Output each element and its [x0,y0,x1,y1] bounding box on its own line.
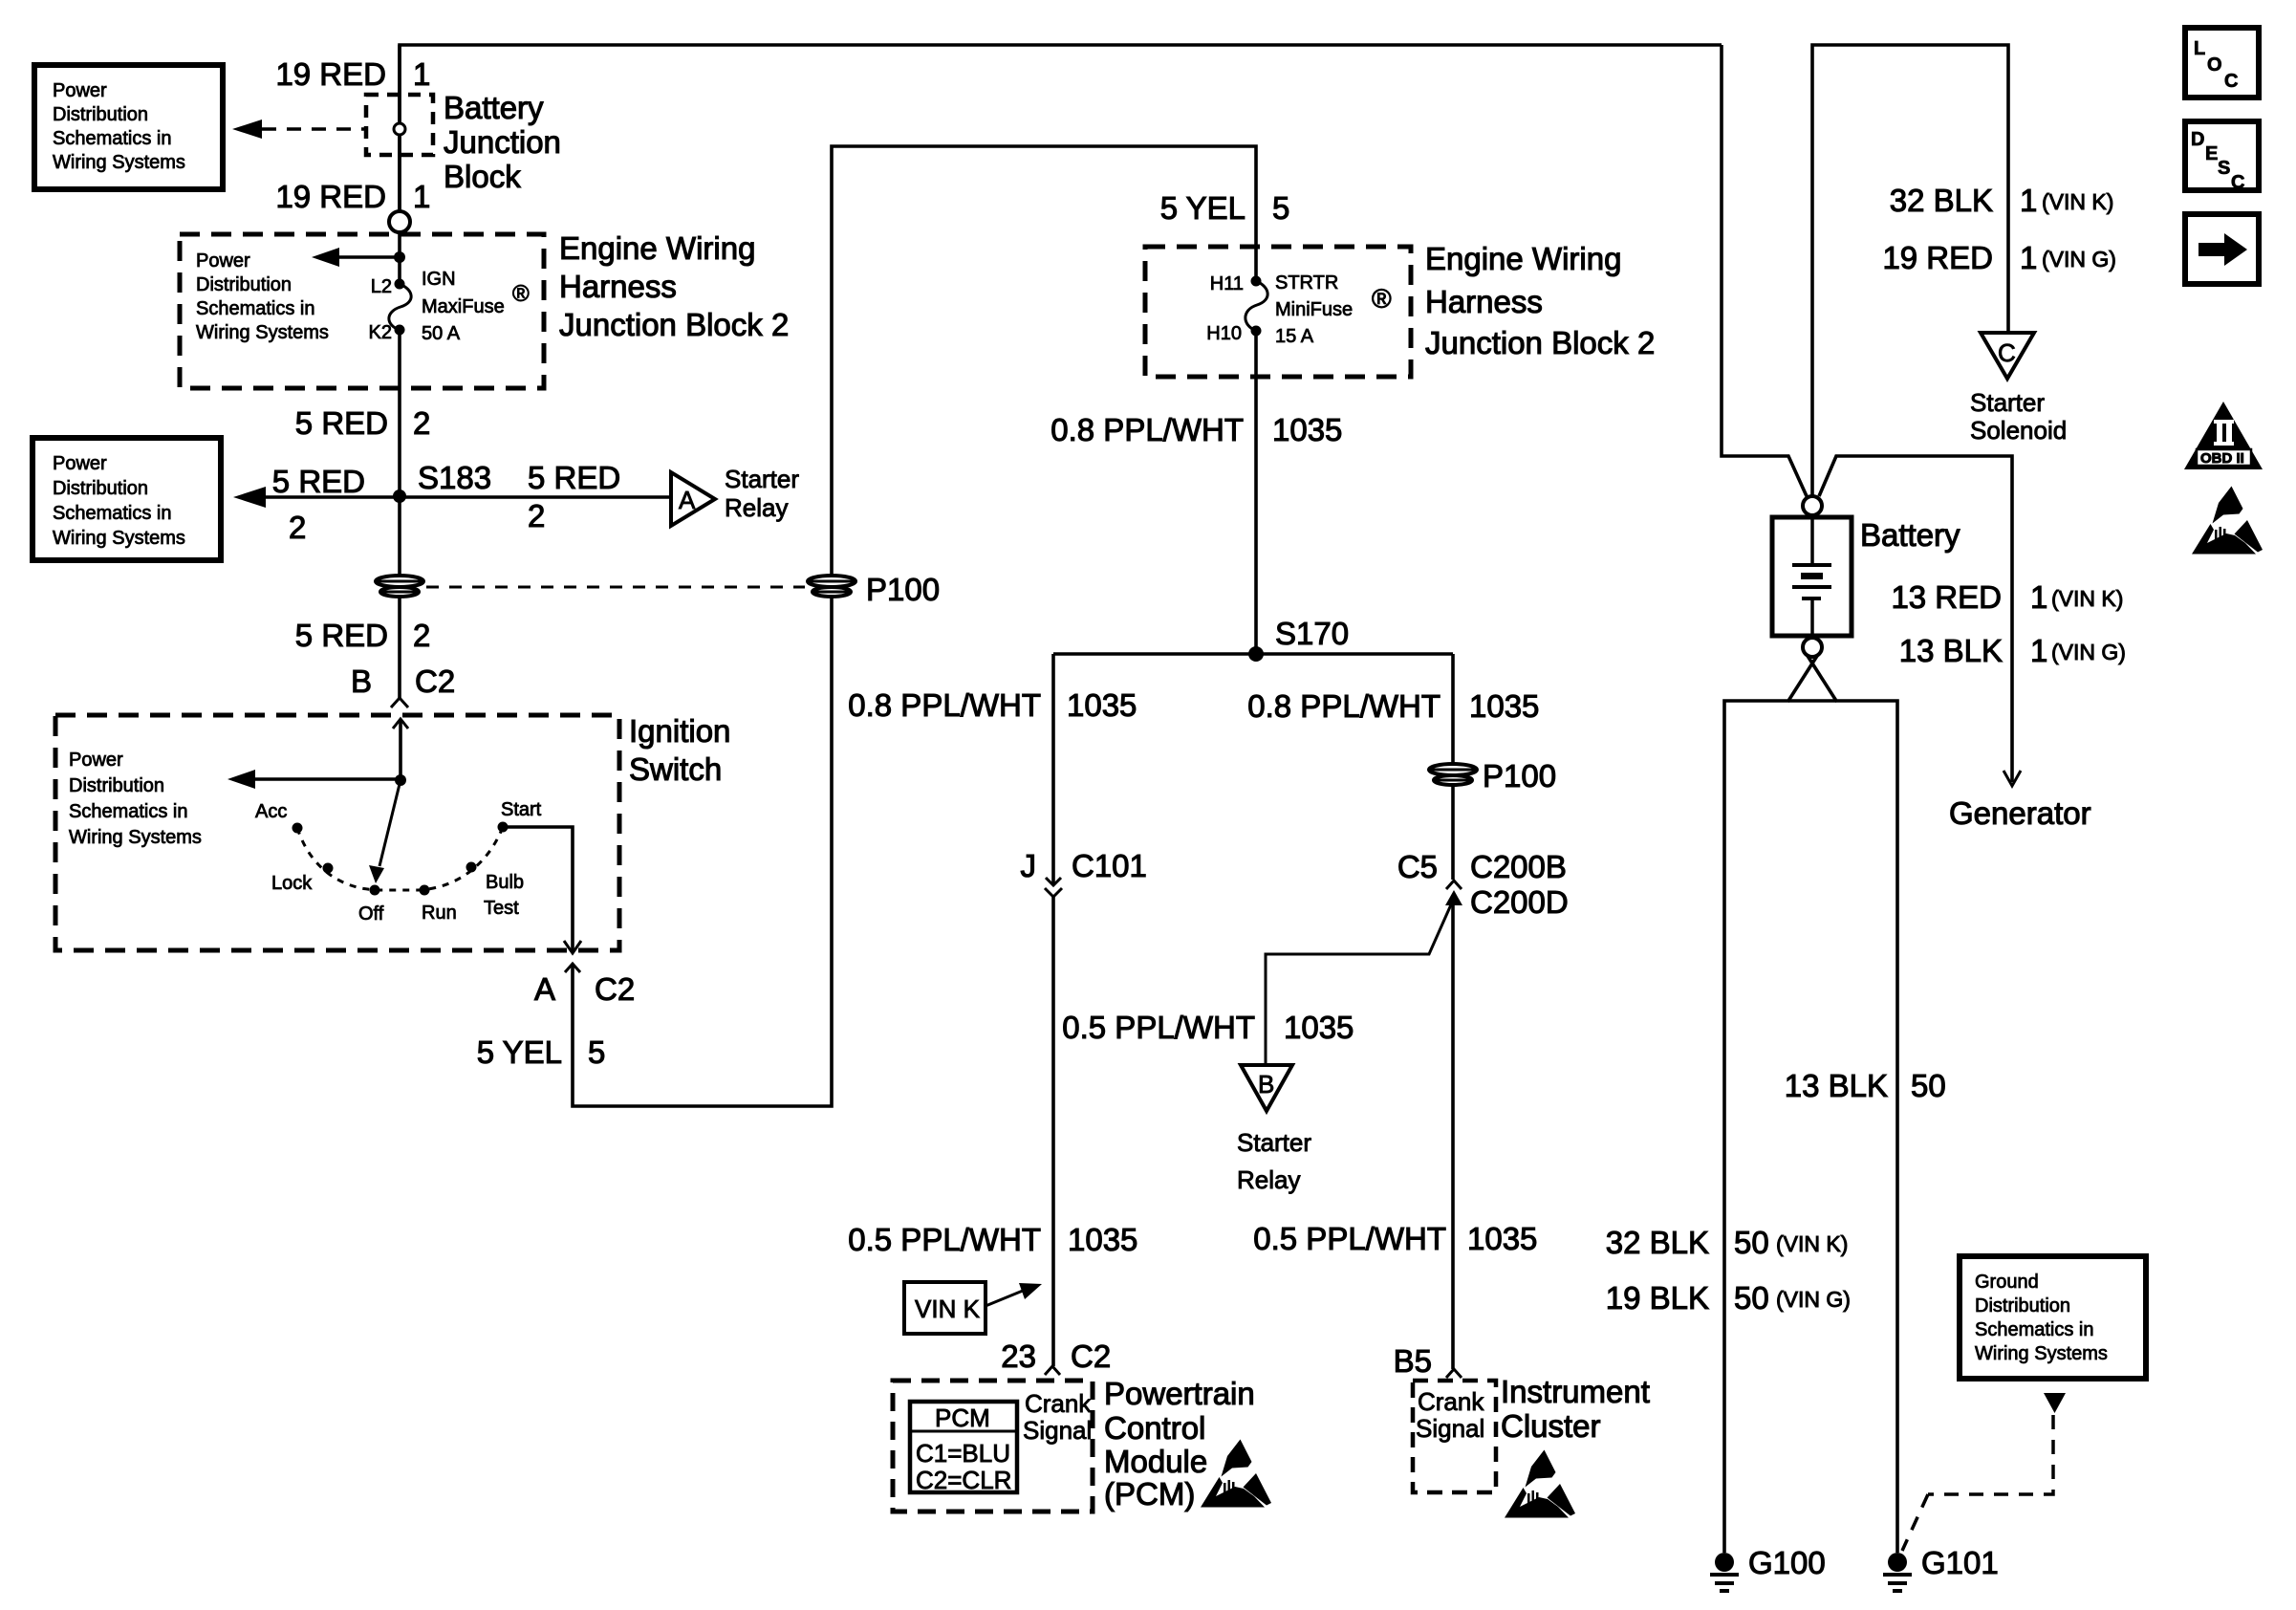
icon: LOC box [2185,28,2259,98]
wire: S183 down to grommet P100 [398,496,401,576]
svg-text:(PCM): (PCM) [1104,1476,1195,1512]
svg-text:Schematics in: Schematics in [53,128,172,149]
ground G101 [1888,1553,1907,1572]
wire: from C100 down through maxifuse to S183 [398,232,401,284]
svg-text:5 RED: 5 RED [295,405,388,441]
svg-text:2: 2 [413,618,430,653]
svg-text:Ground: Ground [1975,1272,2039,1293]
svg-text:C: C [2231,172,2244,193]
svg-text:Distribution: Distribution [69,775,164,796]
switch contact: Start [498,822,509,833]
svg-text:Off: Off [358,903,384,925]
svg-text:1: 1 [2030,633,2047,668]
svg-text:IGN: IGN [422,269,456,290]
dashed box: Ignition Switch [55,715,619,950]
svg-text:0.8 PPL/WHT: 0.8 PPL/WHT [1051,412,1244,447]
triangle C: starter solenoid [1981,333,2034,379]
svg-text:Distribution: Distribution [53,104,148,125]
box: Power Distribution Schematics in Wiring Systems (mid left) [32,438,221,560]
svg-text:C: C [2224,71,2238,92]
svg-text:Junction Block 2: Junction Block 2 [1425,325,1655,360]
switch contact: Run [420,885,430,896]
ignition switch wiper arrow to Off [379,780,401,866]
svg-text:2: 2 [413,405,430,441]
wire: diagonal branch from C200D to starter relay loop [1266,903,1452,1065]
battery junction block dashed box [366,95,433,155]
svg-text:Switch: Switch [629,751,722,787]
svg-text:Power: Power [69,750,123,771]
svg-text:1: 1 [2020,240,2037,275]
wire: right branch down to P100 grommet [1451,654,1455,765]
svg-text:C2: C2 [415,664,455,699]
svg-text:Crank: Crank [1025,1389,1092,1418]
svg-text:C2: C2 [1071,1338,1111,1374]
svg-text:0.5 PPL/WHT: 0.5 PPL/WHT [848,1222,1041,1257]
wire: S183 left arrow to power distribution [264,495,400,499]
svg-text:1035: 1035 [1067,687,1137,723]
triangle B: starter relay [1241,1065,1292,1111]
svg-text:Relay: Relay [1237,1165,1300,1194]
icon: DESC box [2185,121,2259,190]
svg-text:1035: 1035 [1272,412,1342,447]
svg-text:Engine Wiring: Engine Wiring [1425,241,1621,276]
svg-text:Wiring Systems: Wiring Systems [1975,1343,2108,1364]
svg-text:C101: C101 [1072,848,1147,883]
svg-text:C1=BLU: C1=BLU [916,1439,1010,1468]
svg-text:Distribution: Distribution [196,274,292,295]
svg-text:19 RED: 19 RED [275,179,386,214]
dashed box: Engine Wiring Harness Junction Block 2 (middle) [1145,247,1411,377]
battery cell plates [1810,517,1814,563]
svg-text:MiniFuse: MiniFuse [1275,299,1353,320]
svg-text:Wiring Systems: Wiring Systems [53,528,185,549]
wire: C200 down to instrument cluster B5 [1451,905,1455,1369]
junction dot and arrow inside junction block 2 [394,251,405,263]
svg-text:Starter: Starter [1237,1128,1311,1157]
svg-text:MaxiFuse: MaxiFuse [422,296,505,317]
svg-text:K2: K2 [369,322,392,343]
svg-text:Wiring Systems: Wiring Systems [53,152,185,173]
connector A C2 below ignition switch [565,964,580,972]
dashed wire between P100 grommets [426,586,805,589]
svg-text:Schematics in: Schematics in [53,503,172,524]
wire: battery negative V to ground bus [1724,656,1817,1553]
svg-text:1: 1 [2020,183,2037,218]
svg-text:Engine Wiring: Engine Wiring [559,230,755,266]
connector: small circle in battery junction block [394,123,405,135]
svg-text:Run: Run [422,903,457,924]
svg-text:C5: C5 [1397,849,1438,884]
svg-text:1035: 1035 [1467,1221,1537,1256]
svg-text:13 RED: 13 RED [1891,579,2002,615]
svg-text:15 A: 15 A [1275,326,1314,347]
svg-text:D: D [2191,129,2204,150]
ESD symbol (right margin) [2192,487,2263,555]
svg-text:Module: Module [1104,1444,1207,1479]
svg-text:C2=CLR: C2=CLR [916,1466,1011,1494]
wire: arrow to power distribution schematics (ignition) [252,777,401,781]
svg-text:Instrument: Instrument [1501,1374,1650,1409]
battery positive terminal [1803,496,1822,515]
battery negative terminal [1803,638,1822,657]
svg-text:Distribution: Distribution [53,478,148,499]
svg-text:(VIN G): (VIN G) [1776,1287,1851,1312]
dashed wire from ground distribution to G101 [1928,1415,2053,1494]
svg-text:2: 2 [289,510,306,545]
svg-text:O: O [2207,54,2222,76]
wire: Start contact to connector A C2 [503,827,573,952]
svg-text:Battery: Battery [1860,517,1960,553]
dashed box: Engine Wiring Harness Junction Block 2 (left) [180,234,544,388]
svg-text:Battery: Battery [444,90,544,125]
svg-text:C200B: C200B [1470,849,1567,884]
wire: top bus drop to battery (left path) [1722,45,1807,496]
svg-text:Junction: Junction [444,124,561,160]
svg-text:5 YEL: 5 YEL [477,1034,562,1070]
wire: left branch down to C101 [1051,654,1055,885]
wire: 19 RED segment through battery junction block (x=418) [398,45,401,211]
arrow from ground distribution box [2044,1393,2066,1413]
svg-text:0.8 PPL/WHT: 0.8 PPL/WHT [848,687,1041,723]
svg-text:Bulb: Bulb [486,872,524,893]
switch contact: Off [370,885,380,896]
ESD symbol (instrument cluster) [1505,1450,1575,1518]
svg-text:Signal: Signal [1023,1416,1092,1445]
svg-text:0.5 PPL/WHT: 0.5 PPL/WHT [1062,1010,1255,1045]
box: Power Distribution Schematics in Wiring Systems (top left) [34,65,223,189]
svg-text:Harness: Harness [559,269,677,304]
switch contact: Bulb Test [466,862,477,873]
svg-text:L2: L2 [371,276,392,297]
svg-text:J: J [1021,848,1037,883]
svg-text:0.5 PPL/WHT: 0.5 PPL/WHT [1253,1221,1446,1256]
svg-text:Generator: Generator [1949,795,2091,831]
svg-text:B: B [351,664,372,699]
svg-text:1: 1 [413,179,430,214]
ground G100 [1715,1553,1734,1572]
grommet P100 (right) [1429,764,1477,785]
svg-text:19 RED: 19 RED [1882,240,1993,275]
svg-text:PCM: PCM [935,1403,990,1432]
svg-text:C200D: C200D [1470,884,1569,920]
svg-text:32 BLK: 32 BLK [1606,1225,1709,1260]
svg-text:5: 5 [1272,190,1289,226]
svg-text:5 YEL: 5 YEL [1160,190,1245,226]
svg-text:0.8 PPL/WHT: 0.8 PPL/WHT [1247,688,1440,724]
svg-text:Ignition: Ignition [629,713,730,749]
splice S183 [393,490,406,503]
svg-text:A: A [534,971,555,1007]
svg-text:OBD II: OBD II [2200,450,2244,467]
wire: S183 right to starter relay A [400,495,671,499]
svg-text:Control: Control [1104,1410,1205,1446]
svg-text:S183: S183 [418,460,491,495]
dashed box: PCM [893,1381,1093,1512]
svg-text:Starter: Starter [1970,388,2045,417]
grommet P100 (left) [376,576,423,597]
wire: P100 to connector C200B [1451,786,1455,880]
svg-text:H11: H11 [1210,273,1244,294]
connector C101 pin J [1046,878,1061,885]
svg-text:G100: G100 [1748,1545,1826,1580]
svg-text:L: L [2194,38,2205,59]
svg-text:A: A [679,486,696,514]
svg-text:1: 1 [2030,579,2047,615]
svg-text:50: 50 [1734,1225,1769,1260]
svg-text:50: 50 [1911,1068,1946,1103]
wire: fuse to S170 [1254,331,1258,654]
box: Ground Distribution Schematics in Wiring Systems [1960,1256,2146,1379]
svg-text:Relay: Relay [725,493,788,522]
svg-text:G101: G101 [1921,1545,1999,1580]
svg-text:Signal: Signal [1416,1414,1484,1443]
svg-text:50: 50 [1734,1280,1769,1316]
wire: top bus from battery junction block to right side [400,45,1722,211]
svg-text:Distribution: Distribution [1975,1295,2070,1316]
ESD symbol (PCM) [1201,1440,1271,1508]
wire: C101 down to PCM 23 C2 [1051,897,1055,1366]
svg-text:P100: P100 [866,572,940,607]
grommet P100 (middle riser) [808,576,856,597]
svg-text:Power: Power [53,80,107,101]
box VIN K with arrow [904,1282,986,1334]
svg-text:5 RED: 5 RED [295,618,388,653]
svg-text:(VIN G): (VIN G) [2042,247,2116,272]
svg-text:C2: C2 [595,971,635,1007]
svg-text:50 A: 50 A [422,323,461,344]
svg-text:VIN K: VIN K [915,1295,981,1323]
svg-text:32 BLK: 32 BLK [1890,183,1993,218]
wire: battery positive riser to starter solenoid bus [1812,45,2008,496]
svg-text:5: 5 [588,1034,605,1070]
svg-text:B5: B5 [1394,1343,1432,1379]
wire: battery positive to generator bus [1819,456,2012,782]
svg-text:19 RED: 19 RED [275,56,386,92]
svg-text:Block: Block [444,159,521,194]
svg-text:Harness: Harness [1425,284,1543,319]
svg-text:H10: H10 [1206,323,1242,344]
svg-text:S170: S170 [1275,616,1349,651]
svg-text:C: C [1998,338,2016,367]
svg-text:STRTR: STRTR [1275,272,1338,294]
wire: P100 down to ignition switch B C2 [398,598,401,698]
svg-text:Solenoid: Solenoid [1970,416,2067,445]
svg-text:Lock: Lock [271,873,313,894]
svg-text:19 BLK: 19 BLK [1606,1280,1709,1316]
fuse: STRTR MiniFuse 15 A, pins H11/H10 [1251,276,1262,287]
svg-text:Junction Block 2: Junction Block 2 [559,307,789,342]
dashed arrow to Power Distribution box [262,127,366,131]
svg-text:Crank: Crank [1418,1387,1484,1416]
svg-text:2: 2 [528,498,545,533]
generator arrowhead [2004,771,2021,786]
svg-text:Power: Power [53,453,107,474]
connector: open circle C100 [389,211,410,232]
svg-text:Acc: Acc [255,801,287,822]
connector C5 C200B / C200D [1446,881,1462,889]
svg-text:(VIN K): (VIN K) [1776,1231,1848,1256]
svg-text:1: 1 [413,56,430,92]
svg-text:Wiring Systems: Wiring Systems [196,322,329,343]
icon: forward arrow box [2185,214,2259,284]
svg-text:1035: 1035 [1068,1222,1137,1257]
svg-text:Wiring Systems: Wiring Systems [69,827,202,848]
switch contact: Lock [323,863,334,874]
svg-text:Start: Start [501,799,542,820]
wire: 5 YEL from A C2 down and over to engine harness [573,598,832,1106]
svg-text:Starter: Starter [725,465,799,493]
PCM legend box [910,1402,1017,1492]
svg-text:5 RED: 5 RED [528,460,620,495]
svg-text:Test: Test [484,898,519,919]
svg-text:Schematics in: Schematics in [69,801,188,822]
svg-text:®: ® [512,281,530,307]
svg-text:Cluster: Cluster [1501,1408,1601,1444]
svg-text:(VIN K): (VIN K) [2051,586,2123,611]
fuse: IGN MaxiFuse 50 A, pins L2/K2 [395,279,405,290]
dashed box: instrument cluster crank signal [1413,1381,1496,1492]
svg-text:S: S [2218,158,2230,179]
wire: middle riser up and over to STRTR fuse [832,146,1256,576]
svg-text:®: ® [1372,284,1392,314]
splice S170 [1248,646,1264,662]
wire: S170 horizontal bus [1053,652,1453,656]
svg-text:E: E [2205,143,2218,164]
svg-text:1035: 1035 [1284,1010,1354,1045]
svg-text:13 BLK: 13 BLK [1785,1068,1888,1103]
svg-text:Powertrain: Powertrain [1104,1376,1255,1411]
svg-text:Power: Power [196,250,250,272]
triangle A: starter relay feed [671,472,715,526]
svg-text:13 BLK: 13 BLK [1899,633,2003,668]
svg-text:Schematics in: Schematics in [1975,1319,2094,1340]
battery box [1772,517,1852,636]
switch contact: Acc [292,823,303,834]
svg-text:23: 23 [1001,1338,1036,1374]
svg-text:5 RED: 5 RED [272,464,365,499]
svg-text:B: B [1258,1070,1274,1099]
icon: OBD II triangle [2184,402,2263,469]
dashed arc of switch positions [297,827,503,890]
svg-text:1035: 1035 [1469,688,1539,724]
junction dot inside ignition switch [395,774,406,786]
svg-text:(VIN G): (VIN G) [2051,640,2126,664]
svg-text:Schematics in: Schematics in [196,298,315,319]
svg-text:P100: P100 [1483,758,1556,794]
svg-text:(VIN K): (VIN K) [2042,189,2113,214]
